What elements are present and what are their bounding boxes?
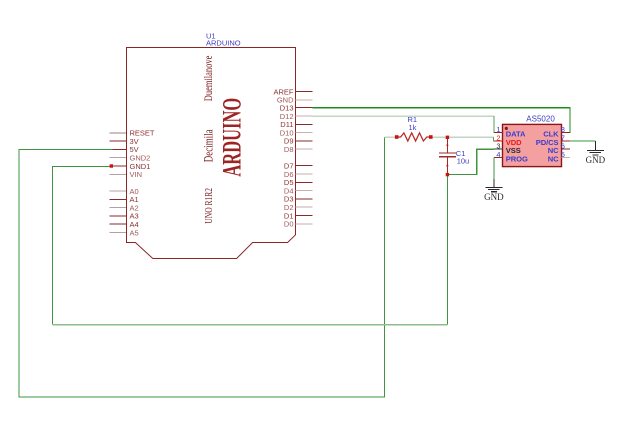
svg-text:AS5020: AS5020: [526, 115, 555, 124]
C1 lead dots: [446, 144, 448, 146]
pin 1 stub: [494, 131, 503, 133]
pin VIN: [109, 173, 126, 175]
pin 8 stub: [562, 131, 571, 133]
pin A3: [109, 215, 126, 217]
wire D12 to U2 pin1 horizontal (pale): [313, 115, 494, 117]
wire GND1 loop right vertical up to C1: [446, 175, 448, 325]
U2 pin1 marker dot: [505, 127, 508, 130]
svg-text:PROG: PROG: [506, 155, 528, 164]
pin 2 stub: [494, 140, 503, 142]
svg-text:GND: GND: [484, 192, 504, 202]
wire corner to R1 left (pale): [385, 136, 396, 138]
GND1 terminal square: [110, 164, 113, 167]
svg-text:ARDUINO: ARDUINO: [217, 98, 247, 177]
pin A4: [109, 223, 126, 225]
pin 7 stub: [562, 140, 571, 142]
pin D2: [296, 206, 313, 208]
ground symbol right of U2: [587, 141, 604, 155]
pin GND1: [109, 165, 126, 167]
svg-text:Decimila: Decimila: [202, 129, 216, 162]
wire 5V loop: [19, 137, 385, 397]
wire GND1 loop: [52, 167, 111, 325]
U1 right pin names: [273, 87, 294, 228]
U1 left pin names: [130, 129, 155, 238]
U1 right pins stubs: [296, 92, 313, 224]
C1 value labels: [456, 149, 469, 165]
pin D5: [296, 181, 313, 183]
pin D6: [296, 173, 313, 175]
capacitor C1: [439, 137, 456, 174]
svg-text:10u: 10u: [457, 157, 470, 166]
pin D9: [296, 140, 313, 142]
R1 terminal squares: [395, 135, 399, 139]
pin RESET: [109, 132, 126, 134]
pin 3 stub: [494, 148, 503, 150]
pin GND: [296, 99, 313, 101]
pin AREF: [296, 91, 313, 93]
U1 left pins stubs: [109, 133, 126, 233]
pin 5 stub: [562, 157, 571, 159]
wire GND1 loop bottom (pale): [52, 324, 447, 326]
svg-text:4: 4: [496, 150, 500, 159]
U1 reference label: [206, 32, 241, 48]
R1 value labels: [408, 115, 418, 132]
pin A0: [109, 190, 126, 192]
IC U2 AS5020 body: [503, 124, 562, 166]
wire R1 right to U2 pin2 (pale): [431, 136, 494, 138]
pin D0: [296, 223, 313, 225]
svg-text:NC: NC: [548, 155, 559, 164]
svg-text:ARDUINO: ARDUINO: [206, 38, 241, 47]
pin GND2: [109, 157, 126, 159]
wire C1 bottom to U2 pin3 VSS: [447, 149, 494, 174]
U2 pin numbers left: [496, 125, 500, 159]
resistor R1: [397, 133, 431, 141]
U2 pin names: [506, 129, 559, 163]
pin D4: [296, 190, 313, 192]
pin A2: [109, 207, 126, 209]
svg-text:VIN: VIN: [130, 170, 143, 179]
svg-text:D8: D8: [284, 145, 294, 154]
svg-text:5: 5: [561, 150, 565, 159]
pin D8: [296, 148, 313, 150]
wire U2 pin4 PROG down to ground: [493, 158, 495, 179]
pin D10: [296, 132, 313, 134]
pin D7: [296, 165, 313, 167]
pin 3V: [109, 140, 126, 142]
IC U1 ARDUINO body outline: [127, 48, 296, 259]
pin D3: [296, 198, 313, 200]
wire D13 to U2 pin8: [313, 108, 570, 133]
svg-text:1k: 1k: [409, 123, 417, 132]
wire U2 pin7 to right ground: [570, 140, 595, 142]
U2 pin numbers right: [561, 125, 565, 159]
svg-text:Duemilanove: Duemilanove: [203, 55, 216, 101]
pin 6 stub: [562, 148, 571, 150]
pin 5V: [109, 148, 126, 150]
pin D1: [296, 215, 313, 217]
ground symbol below PROG: [485, 179, 502, 192]
pin D12: [296, 115, 313, 117]
wire D12 to U2 pin1 vertical: [494, 116, 503, 132]
svg-text:UNO R1R2: UNO R1R2: [203, 188, 215, 224]
svg-text:A5: A5: [130, 228, 139, 237]
pin A5: [109, 232, 126, 234]
pin A1: [109, 198, 126, 200]
svg-text:GND: GND: [586, 155, 606, 165]
pin D11: [296, 123, 313, 125]
pin 4 stub: [494, 157, 503, 159]
C1 terminal squares: [446, 136, 449, 139]
pin D13: [296, 107, 313, 109]
wire jog down to pin2: [493, 137, 502, 141]
svg-text:D0: D0: [284, 220, 294, 229]
